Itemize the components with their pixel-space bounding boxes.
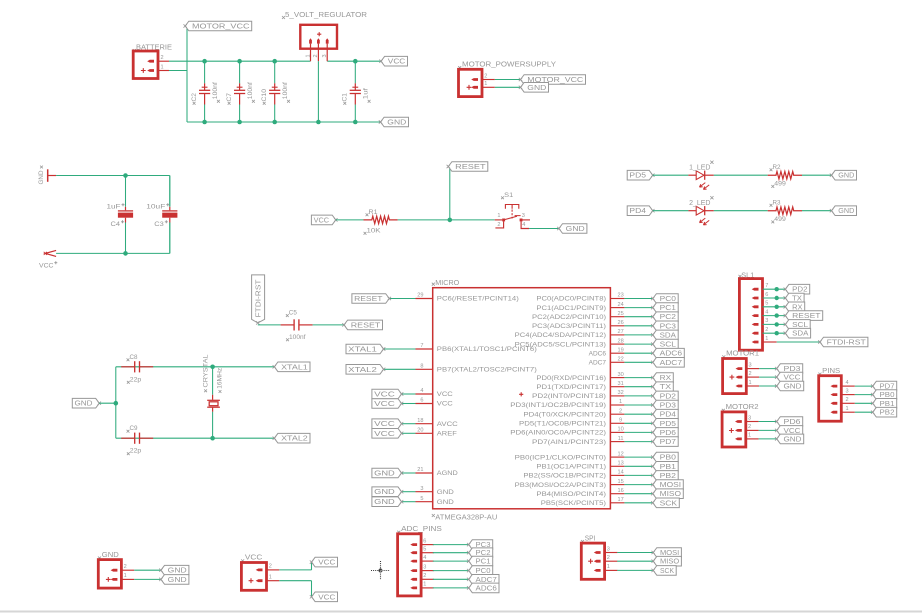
connector PINS [818,368,854,421]
svg-text:10K: 10K [367,227,382,234]
svg-text:22p: 22p [130,448,142,455]
junction SL1 pin 6 [775,296,779,300]
net flag PB0 (IC) [653,452,678,462]
svg-text:PB2: PB2 [880,410,895,417]
wire SL1 pin 1 stub [763,341,777,343]
svg-text:30: 30 [617,372,623,378]
svg-text:22p: 22p [130,376,142,383]
svg-text:2: 2 [423,573,426,579]
net flag PC1 (ADC_PINS) [469,556,493,566]
svg-text:PC1: PC1 [476,559,491,566]
net flag PD4 (IC) [653,409,678,419]
sheet bottom border line [0,611,922,613]
net flag PD3 (MOTOR1 pin 3) [777,364,803,374]
svg-text:PD4: PD4 [629,208,646,215]
wire SL1 pin 5 to RX [763,306,786,308]
svg-text:RESET: RESET [354,296,383,303]
svg-text:ADC6: ADC6 [660,351,683,358]
svg-text:GND: GND [374,499,395,506]
IC pin 12 PB0(ICP1/CLKO/PCINT0) [515,451,625,461]
svg-text:1_LED: 1_LED [689,164,710,171]
svg-text:GND: GND [168,568,187,575]
svg-text:24: 24 [617,302,623,308]
wire MOTOR_VCC vertical [186,27,188,123]
net flag PD7 (IC) [653,437,678,447]
net flag RX (IC) [653,373,674,383]
wire GND conn pin 2 [134,569,161,571]
net flag SCL (IC) [653,339,678,349]
wire R1 to S1 [398,219,495,221]
svg-text:PC0: PC0 [660,296,677,303]
net flag XTAL2 (crystal) [274,433,310,443]
net flag PD5 [627,170,653,180]
resistor R3 499 [768,199,802,223]
svg-text:11: 11 [618,436,624,442]
wire GND to crystal net [99,402,116,404]
net flag VCC (IC y433.3) [372,429,402,439]
svg-text:1: 1 [607,564,610,570]
svg-text:GND: GND [374,489,395,496]
svg-text:31: 31 [617,381,623,387]
net flag GND (LED 2) [832,206,857,216]
net flag GND (bottom pin 1) [161,575,189,585]
wire pin 2 to flag PD4 [624,413,652,415]
svg-text:GND: GND [838,173,854,180]
net flag GND (motor supply) [521,83,549,93]
svg-text:8: 8 [420,364,423,370]
svg-text:SPI: SPI [585,535,596,542]
wire ADC_PINS pin 2 to ADC7 [433,578,469,580]
net flag MOSI (IC) [653,480,684,490]
svg-text:PB3(MOSI/OC2A/PCINT3): PB3(MOSI/OC2A/PCINT3) [515,482,606,489]
svg-text:VCC: VCC [388,59,406,66]
capacitor C9 22p [121,425,153,455]
net flag PC0 (IC) [653,294,678,304]
wire C3 bottom to rail [169,223,171,254]
svg-text:2: 2 [619,408,622,414]
svg-text:XTAL1: XTAL1 [348,346,377,353]
wire pin 32 to flag PD2 [624,395,652,397]
net flag VCC (IC y423.7) [372,419,402,429]
wire SL1 pin 7 to PD2 [763,288,786,290]
svg-text:GND: GND [387,119,406,126]
svg-text:C1: C1 [342,93,349,102]
net flag PB1 (IC) [653,462,678,472]
svg-text:GND: GND [38,170,45,184]
svg-text:10: 10 [617,427,623,433]
wire pin 9 to flag PD5 [624,422,652,424]
svg-text:PC3: PC3 [660,323,677,330]
svg-text:PD2(INT0/PCINT18): PD2(INT0/PCINT18) [532,393,606,400]
svg-text:5_VOLT_REGULATOR: 5_VOLT_REGULATOR [285,10,368,19]
net flag SDA (IC) [653,330,678,340]
wire pin 28 to flag SCL [624,343,652,345]
IC pin 6 VCC [416,398,454,408]
net flag PC2 (ADC_PINS) [469,548,493,558]
connector MOTOR2 [722,404,759,447]
net flag GND (power block) [381,117,409,127]
svg-text:20: 20 [417,428,423,434]
wire C5 to RESET flag [313,324,344,326]
wire PD4 to LED [653,210,689,212]
svg-text:3: 3 [765,318,768,324]
svg-text:GND: GND [102,552,119,559]
svg-text:VCC: VCC [245,555,262,562]
svg-text:1: 1 [749,380,752,386]
svg-text:GND: GND [75,401,93,408]
net flag PC3 (ADC_PINS) [469,540,493,550]
svg-text:1: 1 [269,575,272,581]
wire GND to caps top [56,175,170,177]
svg-text:PC0(ADC0/PCINT8): PC0(ADC0/PCINT8) [536,296,606,303]
svg-text:C8: C8 [130,354,138,361]
wire GND flag y491.7 [402,491,416,493]
wire VCC flag y403.5 [402,403,416,405]
wire SL1 pin 4 to RESET [763,315,786,317]
wire VCC flag y433.3 [402,432,416,434]
svg-text:GND: GND [437,489,455,496]
svg-text:PB2(SS/OC1B/PCINT2): PB2(SS/OC1B/PCINT2) [523,473,606,480]
junction XTAL1 crystal [210,365,215,370]
wire MOTOR1 pin 2 to VCC [759,376,777,378]
svg-text:C7: C7 [226,93,233,102]
wire VCC pin1 down [311,581,313,597]
junction C2 bottom [202,120,207,125]
svg-text:PD2: PD2 [792,287,808,294]
svg-text:C4: C4 [111,221,121,228]
svg-text:VCC: VCC [374,391,395,398]
IC pin 20 AREF [416,428,458,438]
wire GND flag y473.0 [402,472,416,474]
capacitor C7 100nf [226,61,255,122]
junction RESET net [448,218,453,223]
svg-text:FTDI-RST: FTDI-RST [827,339,867,346]
net flag PD2 (IC) [653,391,678,401]
svg-text:SCK: SCK [660,500,678,507]
net flag MOTOR_VCC [521,75,586,85]
junction C4 bottom [123,251,128,256]
svg-text:GND: GND [784,383,802,390]
junction XTAL2 crystal [210,436,215,441]
svg-text:VCC: VCC [39,262,54,269]
svg-text:ADC7: ADC7 [660,360,683,367]
wire pin29 to RESET flag [389,298,415,300]
voltage regulator 5_VOLT_REGULATOR [282,10,368,122]
net flag VCC (IC y403.5) [372,399,402,409]
svg-text:RX: RX [660,375,672,382]
svg-text:S1: S1 [504,192,513,199]
svg-text:100nf: 100nf [289,334,306,341]
svg-text:PD1(TXD/PCINT17): PD1(TXD/PCINT17) [536,384,606,391]
svg-text:SCK: SCK [660,568,674,575]
svg-text:18: 18 [417,418,423,424]
wire pin 11 to flag PD7 [624,441,652,443]
net flag GND (IC y491.7) [372,487,402,497]
net flag VCC (power block) [381,56,408,66]
wire pin 27 to flag SDA [624,334,652,336]
IC pin 30 PD0(RXD/PCINT16) [536,372,624,382]
connector ADC_PINS [397,526,442,596]
svg-text:4: 4 [420,388,423,394]
net flag ADC6 (IC) [653,348,685,358]
wire LED to R3 [714,210,768,212]
wire LED to R2 [714,174,768,176]
regulator pin 2 lead to GND rail [317,44,319,62]
svg-text:5: 5 [423,547,426,553]
net flag PB1 (PINS) [873,399,897,409]
svg-text:VCC: VCC [374,431,395,438]
svg-text:PC2(ADC2/PCINT10): PC2(ADC2/PCINT10) [532,314,606,321]
svg-text:RX: RX [792,304,803,311]
connector SL1 [739,272,769,350]
svg-text:VCC: VCC [314,217,329,224]
svg-text:3: 3 [607,546,610,552]
svg-text:4: 4 [522,222,525,228]
resistor R2 499 [768,164,802,188]
wire pin 15 to flag MOSI [624,484,652,486]
net flag VCC (bottom top) [312,557,338,567]
svg-text:2: 2 [269,564,272,570]
svg-text:PC1: PC1 [660,305,677,312]
svg-text:17: 17 [617,497,623,503]
junction crystal GND [114,401,119,406]
wire battery pin 1 to MOTOR_VCC net [169,70,187,72]
svg-text:GND: GND [566,226,585,233]
IC pin 8 PB7(XTAL2/TOSC2/PCINT7) [416,364,537,374]
svg-text:PD6: PD6 [660,430,677,437]
svg-text:1: 1 [484,81,487,87]
junction C1 bottom [353,120,358,125]
IC pin 32 PD2(INT0/PCINT18) [532,390,624,400]
svg-text:MISO: MISO [660,491,682,498]
junction C2 top [202,59,207,64]
net flag GND (IC y501.7) [372,497,402,507]
net flag PD5 (IC) [653,419,678,429]
switch S1 [495,192,530,229]
svg-text:RESET: RESET [351,322,381,329]
connector GND [98,552,134,588]
wire SL1 pin 3 to SCL [763,323,786,325]
regulator pin 3 lead [326,44,328,62]
IC pin 26 PC3(ADC3/PCINT11) [532,320,624,330]
wire VCC pin2 up [311,562,313,570]
IC pin 24 PC1(ADC1/PCINT9) [536,302,624,312]
svg-text:RESET: RESET [792,313,821,320]
wire VCC pin2 right [279,569,311,571]
net flag PC0 (ADC_PINS) [469,566,493,576]
IC pin 27 PC4(ADC4/SDA/PCINT12) [515,329,625,339]
wire MOTOR_POWERSUPPLY pin2 to MOTOR_VCC [495,79,521,81]
svg-text:C10: C10 [261,89,268,102]
net flag GND (LED 1) [832,170,857,180]
svg-text:4: 4 [765,309,768,315]
IC pin 13 PB1(OC1A/PCINT1) [536,461,624,471]
IC pin 23 PC0(ADC0/PCINT8) [536,293,624,303]
net flag RESET (pin29) [352,294,389,304]
svg-text:21: 21 [417,467,423,473]
wire right top corner to C3 [169,176,171,207]
wire FTDI-RST to C5 [258,324,281,326]
svg-text:2: 2 [161,55,164,61]
wire RESET up [449,167,451,220]
junction SL1 pin 2 [775,331,779,335]
svg-text:VCC: VCC [318,560,335,567]
svg-text:1: 1 [161,64,164,70]
IC pin 15 PB3(MOSI/OC2A/PCINT3) [515,479,625,489]
svg-text:GND: GND [838,208,854,215]
svg-text:3: 3 [420,486,423,492]
svg-text:AREF: AREF [437,431,457,438]
svg-text:XTAL1: XTAL1 [281,364,308,371]
crystal Q1 16MHz [202,354,223,438]
wire SL1 pin 2 to SDA [763,332,786,334]
net flag MISO (SPI) [653,556,681,566]
wire VCC flag y423.7 [402,423,416,425]
svg-text:3: 3 [749,362,752,368]
connector MOTOR_POWERSUPPLY [458,62,556,97]
wire pin 17 to flag SCK [624,502,652,504]
net flag GND (MOTOR2 pin 1) [777,434,804,444]
svg-text:1: 1 [619,399,622,405]
IC pin 25 PC2(ADC2/PCINT10) [532,311,624,321]
svg-text:PD4: PD4 [660,412,677,419]
svg-text:MOTOR_POWERSUPPLY: MOTOR_POWERSUPPLY [462,62,556,69]
svg-text:16: 16 [617,488,623,494]
net flag VCC (MOTOR2 pin 2) [777,426,803,436]
svg-text:MOTOR_VCC: MOTOR_VCC [192,23,250,30]
svg-text:499: 499 [774,216,786,223]
svg-text:SDA: SDA [660,332,677,339]
svg-text:28: 28 [617,338,623,344]
capacitor C8 22p [121,354,153,384]
net flag RESET (pullup) [448,162,488,172]
wire MOTOR1 pin 3 to PD3 [759,368,777,370]
op IC MICRO ATMEGA328P-AU body [432,280,611,521]
junction SL1 pin 5 [775,305,779,309]
svg-text:5: 5 [420,496,423,502]
net flag ADC7 (IC) [653,358,685,368]
IC pin 28 PC5(ADC5/SCL/PCINT13) [515,338,625,348]
capacitor C3 10uF [146,176,177,254]
wire pin 31 to flag TX [624,386,652,388]
svg-text:MOTOR1: MOTOR1 [726,351,759,358]
resistor R1 10K [364,209,398,235]
svg-text:PC4(ADC4/SDA/PCINT12): PC4(ADC4/SDA/PCINT12) [515,332,606,339]
svg-text:PD4(T0/XCK/PCINT20): PD4(T0/XCK/PCINT20) [523,411,606,418]
svg-text:TX: TX [660,384,672,391]
junction C1 top [353,59,358,64]
svg-text:2: 2 [497,222,500,228]
svg-text:MISO: MISO [660,559,680,566]
net flag PC1 (IC) [653,303,678,313]
net flag XTAL1 (crystal) [274,362,310,372]
wire ADC_PINS pin 6 to PC3 [433,544,469,546]
IC pin 14 PB2(SS/OC1B/PCINT2) [523,470,624,480]
wire R3 to GND [802,210,832,212]
capacitor C5 100nf [281,310,313,342]
svg-text:32: 32 [617,390,623,396]
wire VCC rail from regulator pin 3 to VCC flag [327,60,381,62]
svg-text:PC5(ADC5/SCL/PCINT13): PC5(ADC5/SCL/PCINT13) [515,341,606,348]
IC pin 22 ADC7 [589,357,625,367]
svg-text:PD3: PD3 [660,402,677,409]
svg-text:PC3(ADC3/PCINT11): PC3(ADC3/PCINT11) [532,323,606,330]
LED 1_LED [688,161,713,190]
svg-text:ADC_PINS: ADC_PINS [401,526,442,533]
wire GND conn pin 1 [134,578,161,580]
wire pin 19 to flag ADC6 [624,352,652,354]
wire VCC rail from battery to regulator pin 1 [169,60,311,62]
svg-text:PD2: PD2 [660,393,677,400]
svg-text:PC6(/RESET/PCINT14): PC6(/RESET/PCINT14) [437,296,519,303]
svg-text:2: 2 [748,424,751,430]
svg-text:1uF: 1uF [107,203,121,210]
net flag VCC (bottom bottom) [312,592,338,602]
net flag RESET (cap side) [344,320,383,330]
svg-text:VCC: VCC [318,594,335,601]
LED 2_LED [688,196,713,225]
wire PINS pin 4 to PD7 [855,385,873,387]
net flag SDA (SL1) [785,328,810,338]
wire pin 16 to flag MISO [624,493,652,495]
svg-text:C9: C9 [130,425,138,432]
svg-text:PB2: PB2 [660,473,677,480]
junction C7 bottom [237,120,242,125]
svg-text:PINS: PINS [822,368,840,375]
svg-text:16MHz: 16MHz [217,368,224,389]
net flag PC3 (IC) [653,321,678,331]
svg-text:2: 2 [846,397,849,403]
net flag PD6 (MOTOR2 pin 3) [777,417,803,427]
svg-text:23: 23 [617,293,623,299]
junction SL1 pin 4 [775,313,779,317]
IC pin 11 PD7(AIN1/PCINT23) [532,436,624,446]
net flag PB0 (PINS) [873,390,897,400]
wire pin 25 to flag PC2 [624,316,652,318]
net flag SCK (SPI) [653,566,676,576]
svg-text:C3: C3 [154,221,164,228]
svg-text:PD7(AIN1/PCINT23): PD7(AIN1/PCINT23) [532,439,606,446]
svg-text:2: 2 [765,327,768,333]
wire pin 30 to flag RX [624,377,652,379]
wire MOTOR2 pin 1 to GND [759,438,777,440]
svg-text:PB7(XTAL2/TOSC2/PCINT7): PB7(XTAL2/TOSC2/PCINT7) [437,367,537,374]
junction C7 top [237,59,242,64]
junction C10 bottom [272,120,277,125]
svg-text:MOSI: MOSI [660,482,682,489]
IC pin 1 PD3(INT1/OC2B/PCINT19) [510,399,624,409]
wire PINS pin 2 to PB1 [855,402,873,404]
wire PINS pin 3 to PB0 [855,394,873,396]
svg-text:2_LED: 2_LED [689,200,710,207]
svg-text:14: 14 [617,470,623,476]
svg-text:15: 15 [617,479,623,485]
svg-text:29: 29 [417,293,423,299]
svg-text:3: 3 [846,388,849,394]
svg-text:7: 7 [420,343,423,349]
net flag FTDI-RST [820,337,868,347]
svg-text:GND: GND [527,85,546,92]
svg-text:6: 6 [765,292,768,298]
svg-text:TX: TX [792,295,802,302]
svg-text:ADC6: ADC6 [476,585,497,592]
svg-text:PD5(T1/OC0B/PCINT21): PD5(T1/OC0B/PCINT21) [519,421,606,428]
svg-text:SDA: SDA [792,331,809,338]
svg-text:1: 1 [423,582,426,588]
IC pin 2 PD4(T0/XCK/PCINT20) [523,408,624,418]
svg-text:PC1(ADC1/PCINT9): PC1(ADC1/PCINT9) [536,305,606,312]
net flag GND (switch) [559,224,587,234]
